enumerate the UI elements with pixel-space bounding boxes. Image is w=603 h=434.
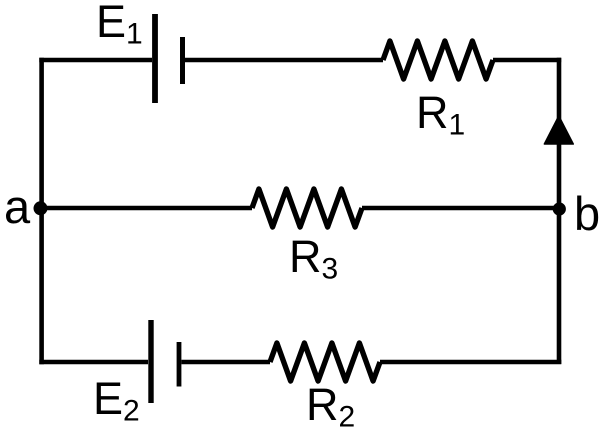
battery E1 long plate: [152, 14, 158, 103]
wire top horizontal right segment: [493, 58, 561, 63]
wire bottom horizontal right segment: [380, 360, 561, 365]
label R1: [416, 90, 465, 141]
battery E1 short plate: [180, 37, 185, 84]
node b junction dot: [553, 202, 566, 215]
resistor R3 zigzag: [252, 189, 362, 227]
wire middle horizontal right segment: [362, 206, 559, 211]
label E1: [96, 0, 143, 50]
wire bottom horizontal middle segment: [182, 360, 271, 365]
node a junction dot: [34, 201, 48, 215]
label R2: [306, 382, 355, 433]
label E2: [93, 376, 140, 427]
resistor R1 zigzag: [383, 41, 493, 79]
wire left vertical (a branch): [39, 58, 44, 365]
battery E2 short plate: [177, 342, 182, 387]
label node b: [574, 190, 600, 237]
label node a: [4, 183, 30, 230]
resistor R2 zigzag: [270, 343, 380, 381]
current arrow on right wire: [544, 116, 573, 144]
wire middle horizontal left segment: [41, 206, 252, 211]
wire top horizontal left segment: [39, 58, 152, 63]
wire bottom horizontal left segment: [39, 360, 148, 365]
wire top horizontal middle segment: [185, 58, 383, 63]
label R3: [289, 234, 338, 285]
wire right vertical (b branch): [557, 58, 562, 364]
battery E2 long plate: [148, 320, 153, 403]
